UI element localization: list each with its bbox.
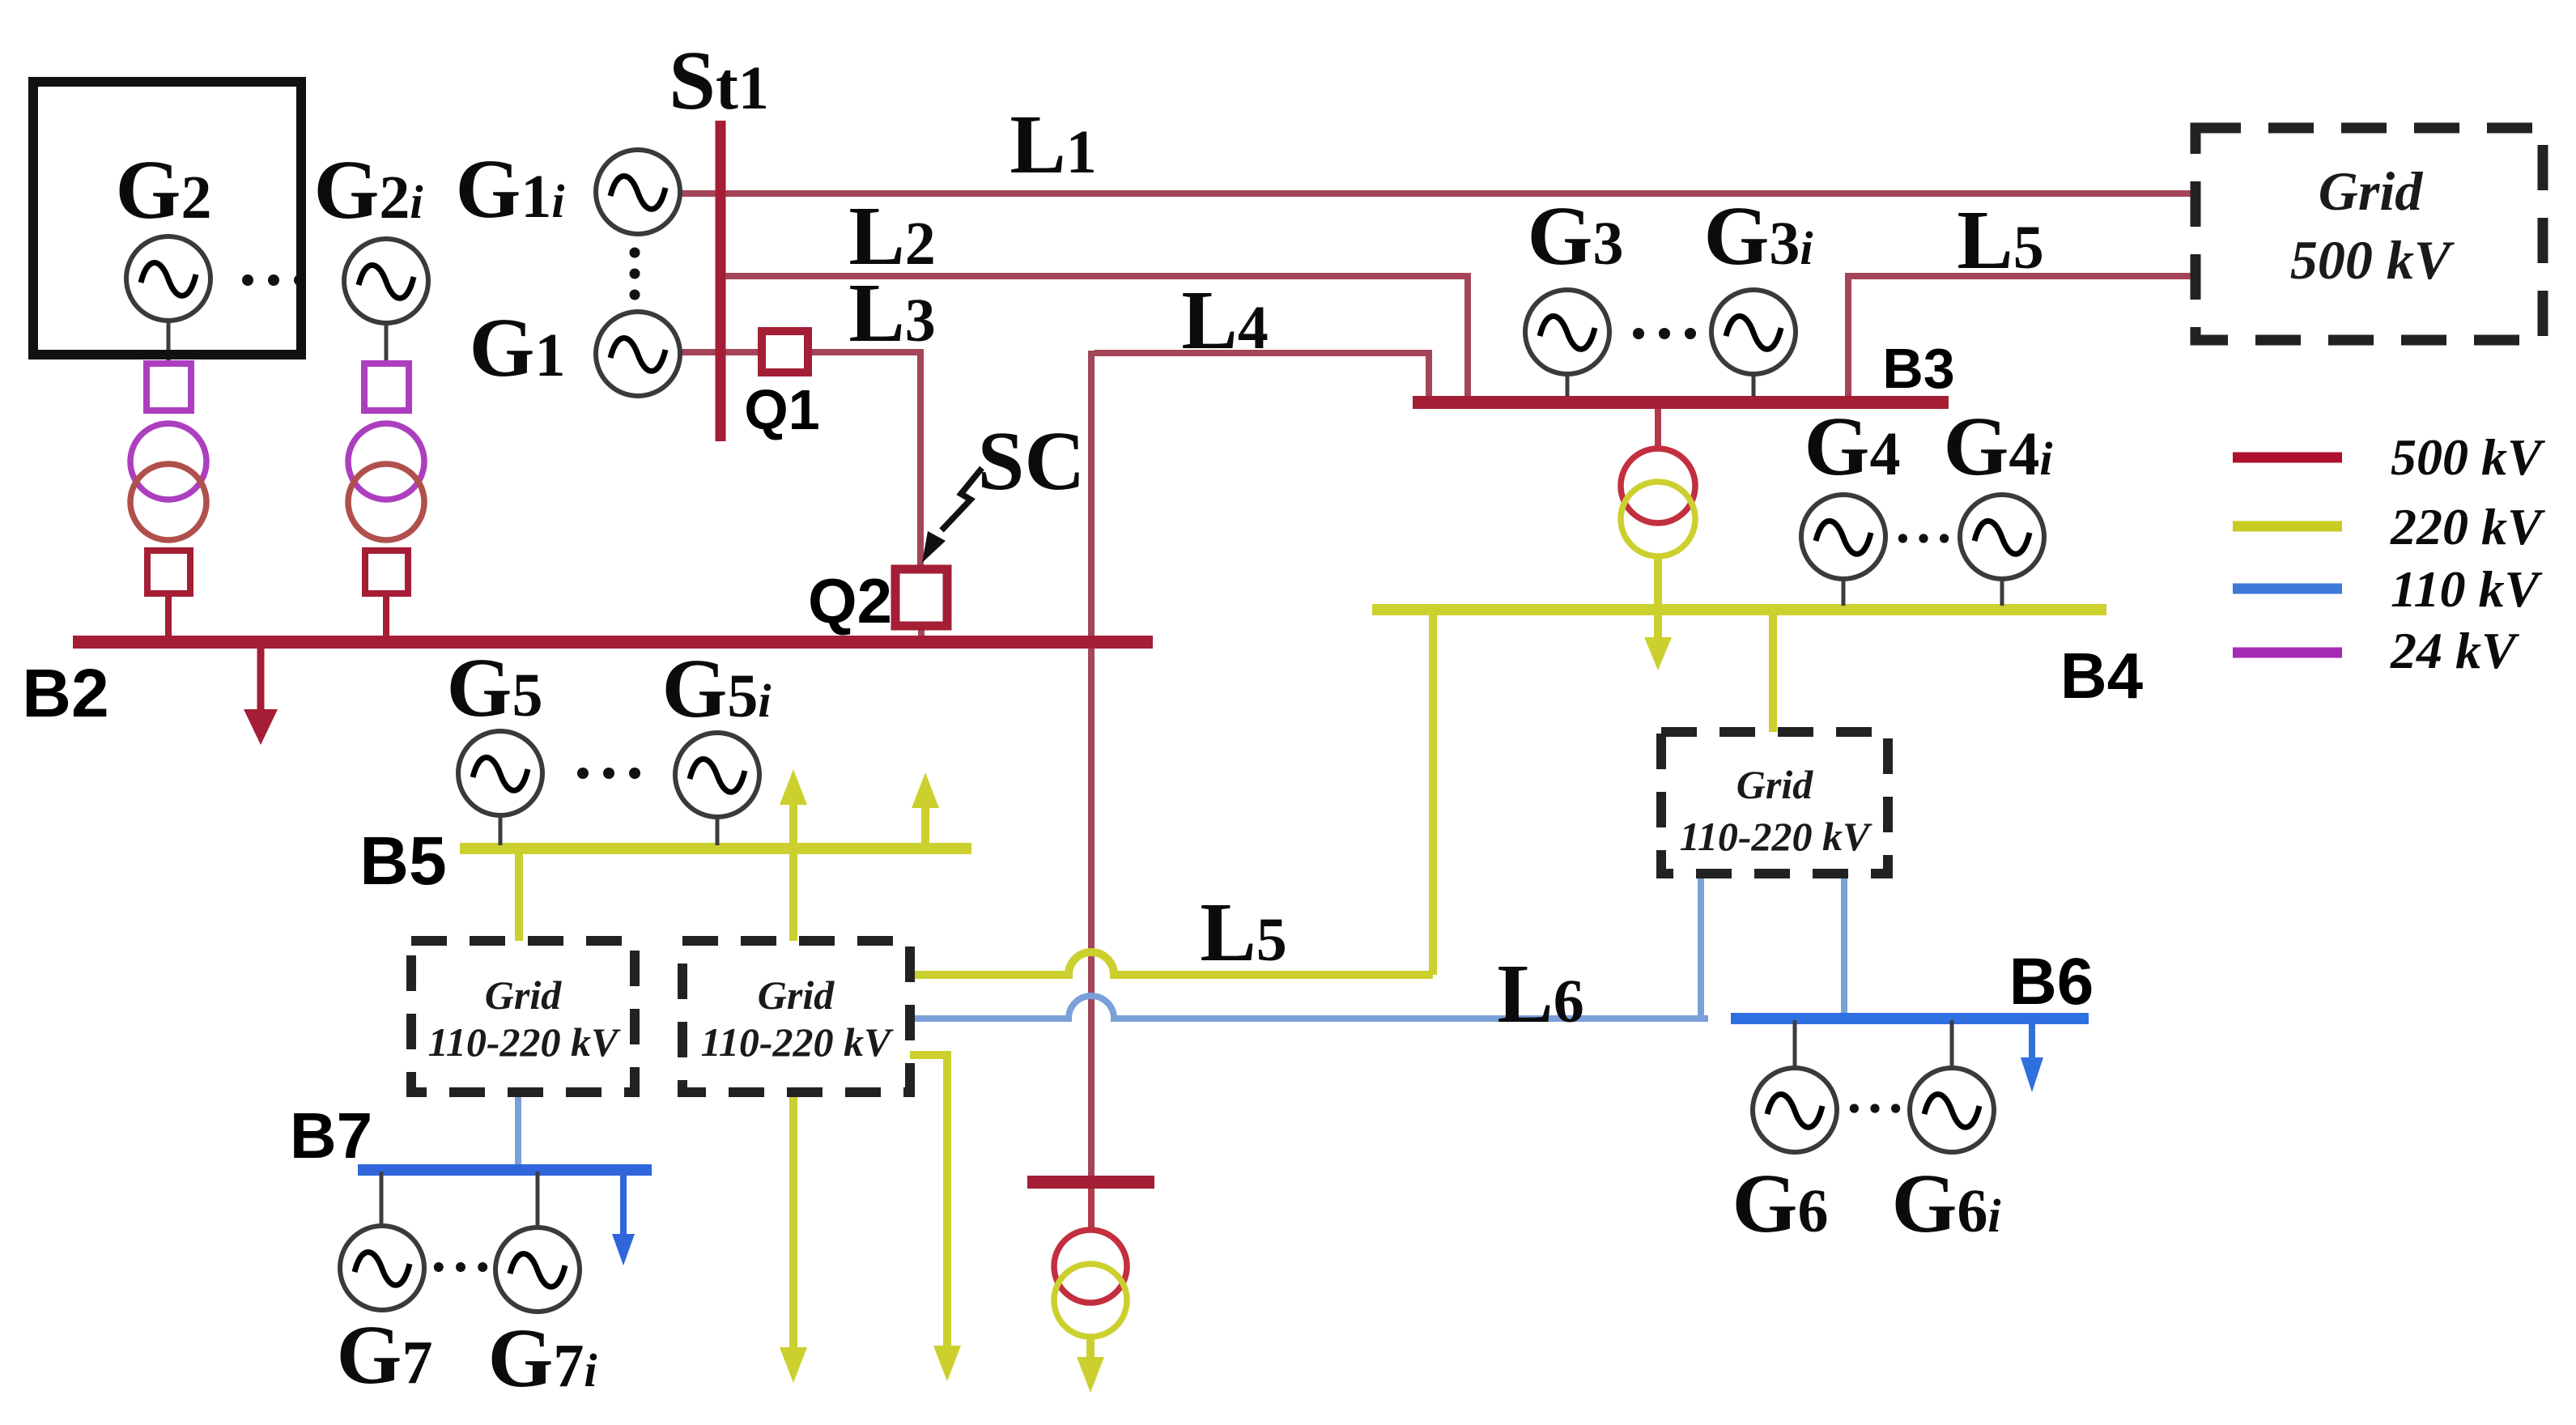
svg-text:Grid: Grid [758, 972, 835, 1018]
svg-text:Grid: Grid [1736, 762, 1813, 807]
svg-text:B2: B2 [22, 655, 108, 731]
svg-text:B6: B6 [2009, 945, 2094, 1019]
svg-text:220 kV: 220 kV [2390, 498, 2546, 555]
svg-text:500 kV: 500 kV [2391, 428, 2546, 486]
svg-text:24 kV: 24 kV [2390, 622, 2520, 679]
svg-text:110-220 kV: 110-220 kV [1680, 814, 1872, 859]
svg-text:Grid: Grid [485, 972, 562, 1018]
svg-text:110-220 kV: 110-220 kV [428, 1019, 621, 1065]
svg-text:B5: B5 [359, 823, 446, 899]
svg-text:110 kV: 110 kV [2391, 560, 2543, 618]
svg-text:110-220 kV: 110-220 kV [701, 1019, 894, 1065]
svg-text:B3: B3 [1882, 337, 1954, 400]
svg-text:500 kV: 500 kV [2290, 229, 2455, 291]
svg-text:SC: SC [978, 415, 1086, 508]
svg-text:Q2: Q2 [808, 565, 892, 636]
svg-text:Grid: Grid [2319, 160, 2423, 222]
svg-text:B7: B7 [290, 1100, 372, 1172]
svg-text:Q1: Q1 [744, 378, 819, 441]
svg-text:B4: B4 [2060, 640, 2144, 712]
